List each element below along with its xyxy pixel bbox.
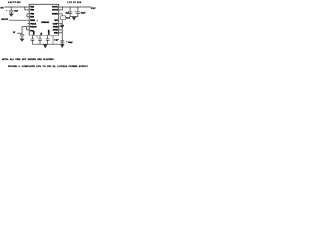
- svg-text:RUN: RUN: [30, 17, 34, 19]
- capacitor CFSET: [31, 39, 35, 40]
- wire ON/OFF to RUN pin: [9, 19, 29, 21]
- svg-text:VOUT1: VOUT1: [52, 7, 58, 9]
- svg-text:1.2V AT 20A: 1.2V AT 20A: [67, 1, 82, 4]
- svg-text:5V: 5V: [13, 32, 16, 34]
- wire stub SGND: [59, 29, 63, 31]
- wire stub COMP: [59, 23, 63, 25]
- wire pins tie VIN3/RUN: [27, 14, 29, 17]
- svg-text:VOUT: VOUT: [91, 8, 95, 10]
- ground input cap: [9, 14, 13, 17]
- svg-text:COMP: COMP: [53, 23, 59, 25]
- svg-text:VIN1: VIN1: [30, 7, 34, 9]
- svg-text:VIN: VIN: [0, 7, 4, 9]
- wire stub TRACK pin: [27, 23, 29, 25]
- ground C5V: [20, 39, 24, 42]
- capacitor C5V: [20, 35, 24, 36]
- wire output cap ground bus: [70, 16, 78, 18]
- capacitor COUT1 22uF: [68, 12, 72, 13]
- svg-text:ON/OFF: ON/OFF: [1, 19, 9, 21]
- wire bottom pin SS: [39, 35, 41, 38]
- wire VIN rail: [4, 6, 29, 8]
- capacitor C100 polarized: [60, 41, 64, 42]
- svg-text:10µF: 10µF: [14, 11, 18, 13]
- capacitor CIN 10uF: [9, 11, 14, 12]
- svg-text:VFB: VFB: [54, 20, 58, 22]
- svg-text:VOSNS: VOSNS: [52, 14, 59, 16]
- resistor RSET: [61, 16, 66, 20]
- svg-text:PGND: PGND: [53, 26, 59, 28]
- wire EXTVCC vertical: [21, 27, 23, 35]
- ground bus center: [43, 44, 47, 48]
- svg-text:PGOOD: PGOOD: [30, 27, 37, 29]
- node pin number blob: [37, 20, 38, 21]
- ground output caps: [72, 17, 76, 21]
- svg-text:GND: GND: [54, 33, 59, 35]
- wire VOSNS to feedback resistor: [59, 14, 63, 16]
- svg-text:VOUT2: VOUT2: [52, 10, 58, 12]
- wire stub GND: [59, 32, 63, 34]
- svg-text:+: +: [75, 11, 76, 13]
- ground RSET: [60, 25, 64, 28]
- wire COUT1 branch: [69, 7, 71, 12]
- wire stub VCC tie: [26, 27, 29, 30]
- wire 5V feed: [17, 32, 22, 34]
- svg-text:100µF: 100µF: [68, 42, 73, 44]
- svg-text:4.5V TO 30V: 4.5V TO 30V: [8, 1, 21, 4]
- wire EXTVCC stub: [22, 26, 29, 28]
- capacitor CSS: [38, 39, 42, 40]
- wire bottom pin SGND: [52, 35, 54, 44]
- svg-text:FSET: FSET: [34, 30, 36, 35]
- svg-text:VIN3: VIN3: [30, 14, 34, 16]
- wire COUT2 branch: [77, 7, 79, 12]
- svg-text:NOTE: ALL PINS NOT SHOWN ARE F: NOTE: ALL PINS NOT SHOWN ARE FLOATING: [2, 58, 54, 61]
- wire stub PGND: [59, 26, 63, 28]
- capacitor CCOMP: [46, 39, 50, 40]
- svg-text:COMP: COMP: [49, 29, 51, 35]
- wire bottom pin FSET: [32, 35, 34, 38]
- svg-text:100µF: 100µF: [81, 13, 86, 15]
- svg-text:LTM4601: LTM4601: [41, 21, 49, 24]
- svg-text:RUN2: RUN2: [30, 20, 35, 22]
- svg-text:FIGURE 6. COMPLETE 4.5V TO 30V: FIGURE 6. COMPLETE 4.5V TO 30V IN, 1.2V/…: [8, 65, 88, 68]
- node junction COUT1: [70, 6, 71, 7]
- wire junction VIN to VIN2: [24, 6, 25, 7]
- svg-text:60.4k: 60.4k: [66, 17, 70, 20]
- capacitor COUT2 100uF polarized: [76, 12, 80, 13]
- ground bus right: [60, 44, 64, 47]
- svg-text:SGND: SGND: [53, 30, 59, 32]
- wire bottom pin COMP: [47, 35, 49, 38]
- svg-text:0.1µF: 0.1µF: [54, 40, 58, 42]
- wire VOUT rail: [59, 6, 92, 8]
- wire below RSET: [61, 20, 63, 44]
- svg-text:+: +: [6, 10, 7, 12]
- wire cap branch: [10, 7, 12, 10]
- svg-text:22µF: 22µF: [65, 13, 69, 15]
- node junction COUT2: [77, 6, 78, 7]
- svg-text:SS: SS: [41, 32, 43, 35]
- svg-text:TRACK: TRACK: [30, 22, 37, 25]
- wire stub NC: [36, 35, 38, 38]
- svg-text:VIN2: VIN2: [30, 10, 34, 12]
- node junction input cap: [11, 6, 12, 7]
- wire ground bus: [33, 43, 65, 45]
- op-amp U1 LTM4601 module body: [29, 4, 59, 35]
- wire VOUT2 tie: [59, 7, 63, 10]
